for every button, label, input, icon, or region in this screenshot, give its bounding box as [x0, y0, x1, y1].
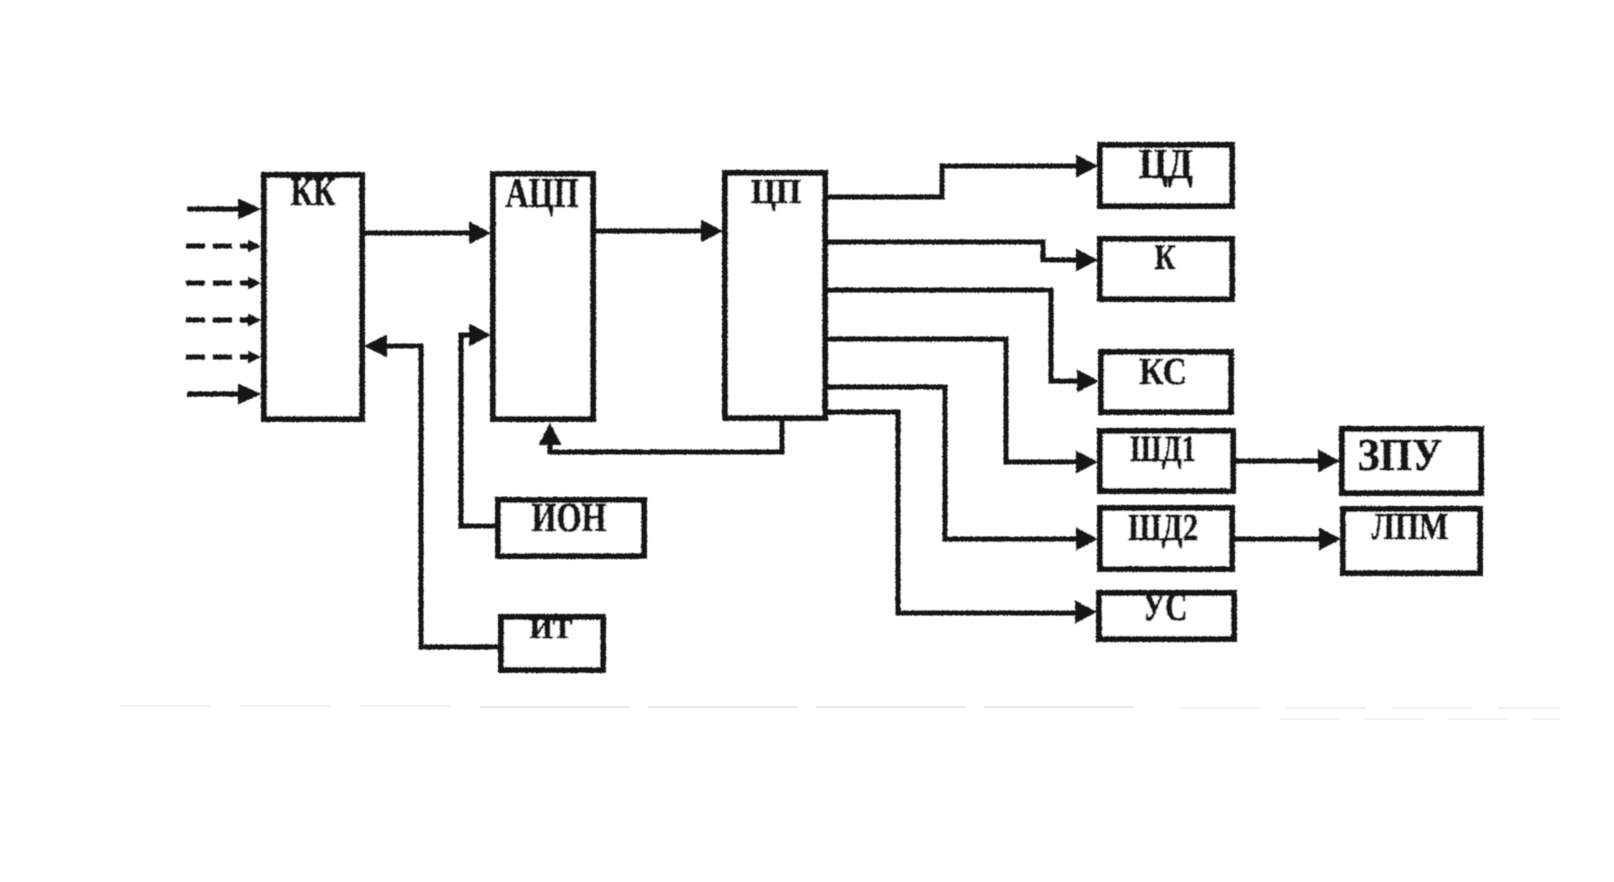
svg-text:К: К — [1155, 237, 1176, 277]
svg-text:ЦД: ЦД — [1139, 142, 1193, 188]
svg-text:УС: УС — [1143, 584, 1188, 629]
svg-text:ШД2: ШД2 — [1128, 507, 1198, 549]
svg-text:АЦП: АЦП — [506, 171, 579, 217]
svg-text:ИОН: ИОН — [532, 494, 607, 540]
svg-text:ИТ: ИТ — [530, 614, 573, 645]
svg-text:ЛПМ: ЛПМ — [1372, 506, 1449, 548]
svg-text:КК: КК — [291, 169, 336, 214]
svg-text:ЦП: ЦП — [751, 172, 801, 211]
svg-text:ЗПУ: ЗПУ — [1358, 429, 1443, 480]
svg-text:ШД1: ШД1 — [1130, 429, 1196, 470]
svg-text:КС: КС — [1139, 351, 1187, 393]
